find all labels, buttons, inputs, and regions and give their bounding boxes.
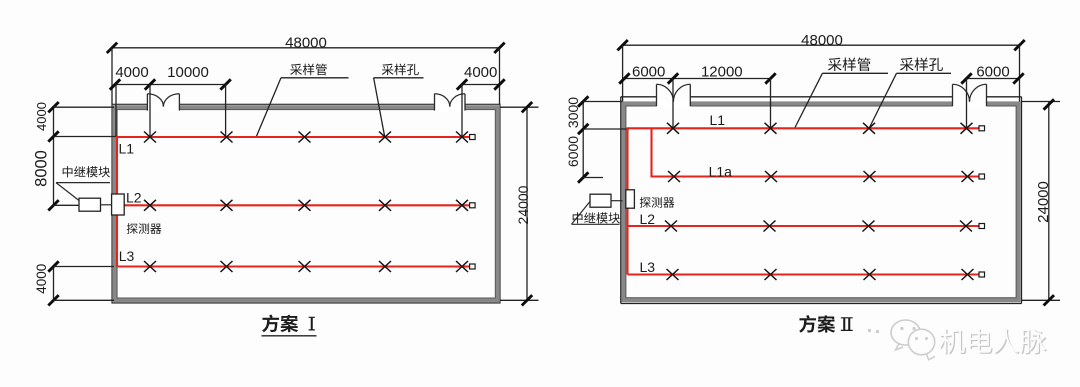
- svg-text:24000: 24000: [1035, 181, 1052, 223]
- svg-text:L2: L2: [640, 211, 656, 227]
- svg-text:8000: 8000: [33, 150, 51, 187]
- svg-text:4000: 4000: [115, 64, 148, 81]
- svg-text:L2: L2: [126, 189, 142, 205]
- svg-text:L1: L1: [119, 141, 135, 157]
- svg-text:6000: 6000: [565, 136, 581, 167]
- svg-text:4000: 4000: [34, 264, 49, 294]
- svg-text:L3: L3: [119, 248, 135, 264]
- svg-text:48000: 48000: [285, 34, 327, 51]
- svg-text:L3: L3: [640, 259, 656, 275]
- svg-text:12000: 12000: [701, 64, 743, 81]
- svg-text:6000: 6000: [976, 64, 1009, 81]
- svg-text:4000: 4000: [464, 64, 497, 81]
- svg-text:10000: 10000: [167, 64, 209, 81]
- svg-text:L1: L1: [710, 112, 726, 128]
- svg-text:4000: 4000: [34, 102, 49, 131]
- svg-text:48000: 48000: [801, 32, 843, 49]
- svg-text:24000: 24000: [515, 185, 531, 224]
- svg-text:L1a: L1a: [709, 163, 733, 179]
- svg-text:3000: 3000: [565, 97, 581, 128]
- svg-text:6000: 6000: [632, 64, 665, 81]
